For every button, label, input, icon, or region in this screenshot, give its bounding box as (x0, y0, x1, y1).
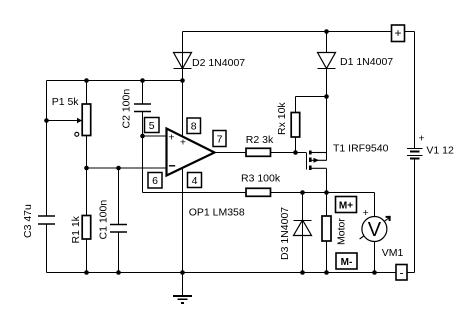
battery V1 plate short upper (410, 151, 420, 153)
wire non-inverting input (143, 135, 167, 137)
diode D3 1N4007 flyback (294, 220, 312, 236)
svg-text:C2 100n: C2 100n (121, 89, 133, 129)
svg-text:V: V (368, 219, 382, 241)
svg-text:D1 1N4007: D1 1N4007 (340, 56, 393, 68)
resistor R3 label (241, 173, 281, 185)
wire C1 top stem (118, 168, 120, 225)
svg-text:-: - (400, 265, 404, 279)
capacitor C3 label (22, 204, 34, 238)
motor winding rectangle (322, 216, 331, 241)
voltmeter VM1 needle arrowhead (386, 216, 391, 221)
capacitor C2 label (121, 89, 133, 129)
wire D3 branch (302, 193, 304, 273)
node D3 bottom junction (300, 270, 305, 275)
wire feedback vertical to R3 (142, 136, 144, 193)
resistor R2 body (246, 148, 271, 156)
node voltmeter bottom junction (372, 270, 377, 275)
svg-text:VM1: VM1 (382, 247, 404, 259)
potentiometer P1 open terminal circle (75, 132, 79, 136)
transistor T1 channel segments (309, 151, 312, 171)
node D1 anode junction (324, 29, 329, 34)
diode D2 label (192, 57, 245, 69)
voltmeter VM1 plus mark (363, 207, 369, 219)
wire P1 bottom stem (86, 136, 88, 169)
diode D1 label (340, 56, 393, 68)
pin 5 box (145, 118, 160, 133)
wire bottom ground rail (47, 272, 397, 274)
diode D1 1N4007 (318, 53, 336, 69)
resistor R1 label (70, 215, 82, 243)
voltmeter VM1 needle (360, 218, 389, 239)
svg-text:P1 5k: P1 5k (52, 96, 80, 108)
wire left rail below C3 (46, 224, 48, 273)
node D3 top junction (300, 190, 305, 195)
svg-text:8: 8 (191, 121, 197, 133)
voltmeter VM1 V glyph (368, 219, 382, 241)
transistor T1 source lead (312, 152, 327, 154)
wire second rail after D2 (47, 80, 183, 82)
wire voltmeter bottom stem (374, 242, 376, 273)
wire top +12V rail left segment (183, 31, 392, 33)
svg-text:R1 1k: R1 1k (70, 215, 82, 243)
wire R1 bottom stem (86, 239, 88, 273)
wire inverting input (87, 167, 167, 169)
wire P1 top stem (86, 81, 88, 105)
capacitor C2 plates (134, 104, 151, 112)
op-amp label OP1 LM358 (189, 207, 245, 219)
svg-text:D2 1N4007: D2 1N4007 (192, 57, 245, 69)
wire R1 top stem (86, 168, 88, 216)
wire right rail above battery (414, 32, 416, 149)
transistor T1 IRF9540 gate bar (306, 153, 308, 170)
voltmeter VM1 label (382, 247, 404, 259)
svg-text:+: + (363, 207, 369, 219)
svg-text:+: + (394, 26, 401, 40)
node motor bottom junction (324, 270, 329, 275)
svg-text:M-: M- (341, 257, 353, 268)
resistor R2 label (246, 134, 274, 146)
wire ground stem (182, 273, 184, 296)
svg-text:+: + (180, 137, 186, 149)
wire D1 bottom stem (326, 69, 328, 97)
svg-text:7: 7 (217, 133, 223, 145)
wire P1 wiper from left rail (47, 120, 78, 122)
node motor top junction (324, 190, 329, 195)
node R1 top junction (84, 166, 89, 171)
op-amp U1 OP1 LM358 triangle (167, 129, 215, 176)
wire op-amp supply vertical pin8 to pin4 (182, 81, 184, 273)
wire mosfet drain down (326, 168, 328, 192)
wire bottom rail right of minus terminal (407, 272, 415, 274)
svg-text:M+: M+ (339, 200, 353, 211)
svg-text:C1 100n: C1 100n (98, 200, 110, 240)
diode D3 label (279, 207, 291, 260)
wire voltmeter top stem (374, 193, 376, 217)
wire left rail above C3 (46, 81, 48, 217)
svg-text:T1 IRF9540: T1 IRF9540 (333, 143, 389, 155)
resistor R3 body (246, 188, 271, 196)
wire C2 top stem (142, 81, 144, 105)
wire C2 bottom stem (142, 112, 144, 137)
svg-text:R2 3k: R2 3k (246, 134, 274, 146)
svg-text:C3 47u: C3 47u (22, 204, 34, 238)
transistor T1 body lead with arrow (312, 158, 327, 163)
wire gate lead (296, 152, 307, 154)
battery V1 label (426, 145, 454, 157)
node C1 bottom junction (116, 270, 121, 275)
wire Rx top horizontal to source node (296, 96, 327, 98)
potentiometer P1 label (52, 96, 80, 108)
svg-text:OP1 LM358: OP1 LM358 (189, 207, 245, 219)
diode D2 1N4007 (174, 53, 192, 69)
node P1 top junction (84, 78, 89, 83)
node C2 top junction (140, 78, 145, 83)
node D1 cathode junction (324, 94, 329, 99)
wire right rail below battery (414, 159, 416, 273)
svg-text:+: + (168, 131, 174, 143)
pin 4 box (188, 173, 202, 188)
transistor T1 drain lead (312, 167, 327, 169)
motor label (336, 218, 348, 245)
wire Rx top stem (295, 97, 297, 113)
plus supply terminal box (392, 25, 405, 42)
wire D2 branch through diode (182, 32, 184, 81)
node non-inverting input junction (140, 134, 145, 139)
node C1 top junction (116, 166, 121, 171)
wire C1 bottom stem (118, 232, 120, 273)
wire motor top stem (326, 193, 328, 217)
wire R2 right lead to gate node (271, 152, 296, 154)
capacitor C3 plates (38, 216, 55, 224)
battery V1 plate long lower (407, 155, 423, 157)
op-amp minus input mark (169, 165, 175, 167)
capacitor C1 plates (110, 225, 127, 233)
motor M+ terminal box (336, 197, 357, 213)
svg-text:Motor: Motor (336, 218, 348, 245)
svg-text:6: 6 (152, 175, 158, 187)
wire top rail right of plus terminal (405, 31, 415, 33)
wire source node to mosfet (326, 97, 328, 161)
svg-text:4: 4 (192, 175, 198, 187)
pin 7 box (213, 131, 226, 147)
capacitor C1 label (98, 200, 110, 240)
battery V1 plate long top (407, 148, 423, 150)
battery V1 plus mark (419, 133, 425, 145)
node gate junction (293, 150, 298, 155)
op-amp supply plus mark (180, 137, 186, 149)
svg-text:Rx 10k: Rx 10k (276, 102, 288, 135)
voltmeter VM1 circle (362, 217, 387, 242)
node ground junction (180, 270, 185, 275)
wire R3 right lead to motor node (271, 192, 375, 194)
wire op-amp output lead (215, 152, 247, 154)
potentiometer P1 wiper arrow (77, 118, 82, 124)
node wiper junction (44, 118, 49, 123)
potentiometer P1 body (82, 104, 91, 136)
svg-text:D3 1N4007: D3 1N4007 (279, 207, 291, 260)
motor M- terminal box (336, 253, 357, 269)
wire Rx bottom stem (295, 137, 297, 153)
op-amp plus input mark (168, 131, 174, 143)
wire motor bottom stem (326, 241, 328, 273)
svg-text:+: + (419, 133, 425, 145)
transistor T1 label (333, 143, 389, 155)
node R1 bottom junction (84, 270, 89, 275)
ground symbol (173, 296, 192, 303)
svg-text:5: 5 (149, 120, 155, 132)
resistor Rx label (276, 102, 288, 135)
resistor Rx body (291, 113, 300, 138)
wire D1 top stem (326, 32, 328, 53)
resistor R1 body (82, 216, 91, 240)
node D2 cathode junction (180, 78, 185, 83)
pin 8 box (187, 118, 201, 134)
svg-text:R3 100k: R3 100k (241, 173, 281, 185)
battery V1 plate short bottom (410, 158, 420, 160)
pin 6 box (148, 173, 162, 189)
minus supply terminal box (396, 265, 407, 281)
svg-text:V1 12: V1 12 (426, 145, 454, 157)
wire R3 left lead (143, 192, 247, 194)
